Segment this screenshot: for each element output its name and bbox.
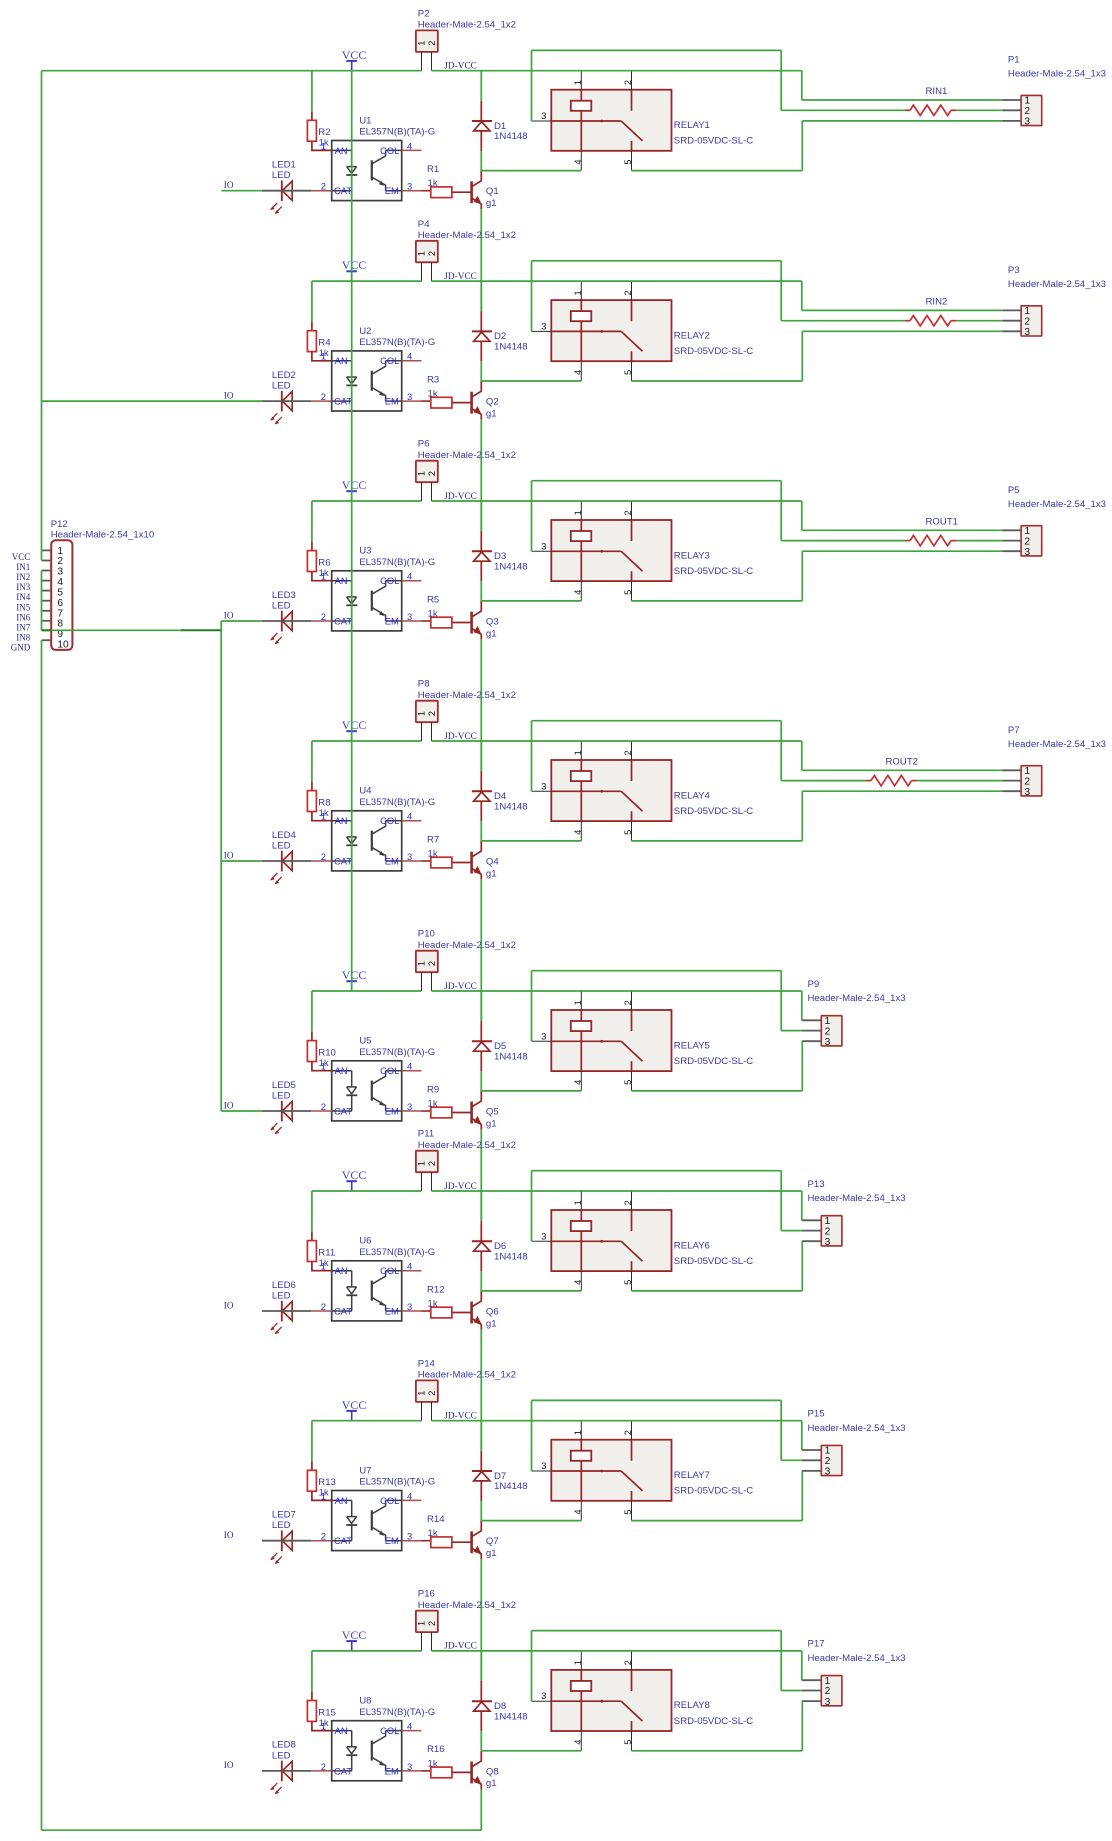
wire diode to collector junction <box>480 821 482 841</box>
connector P3 (Header-Male-2.54_1x3) <box>1008 265 1106 338</box>
wire JD-VCC down to P17 pin1 <box>801 1651 803 1680</box>
svg-text:IO: IO <box>224 1530 234 1540</box>
wire relay top feed <box>532 720 782 722</box>
pin 4 wire of RELAY3 <box>580 581 582 601</box>
svg-text:2: 2 <box>427 961 437 966</box>
pin 2 wire of RELAY6 <box>631 1191 633 1210</box>
transistor Q3 <box>472 601 499 640</box>
wire diode top segment <box>480 71 482 101</box>
wire emitter chain down <box>480 640 482 772</box>
svg-text:3: 3 <box>57 567 63 578</box>
svg-text:2: 2 <box>321 1301 326 1312</box>
wire VCC to pin1 of P6 <box>312 500 422 502</box>
wire resistor to pin2 of P7 <box>917 780 1002 782</box>
svg-text:AN: AN <box>335 355 348 366</box>
svg-text:4: 4 <box>57 577 63 588</box>
resistor R14 1k <box>422 1514 471 1548</box>
svg-text:R16: R16 <box>427 1744 445 1755</box>
svg-text:1N4148: 1N4148 <box>494 802 528 813</box>
svg-text:LED4: LED4 <box>272 830 297 841</box>
transistor Q8 <box>472 1751 499 1790</box>
relay RELAY4 SRD-05VDC-SL-C <box>541 750 753 835</box>
wire JD-VCC down to P7 pin1 <box>801 741 803 770</box>
VCC power symbol <box>342 478 367 501</box>
transistor Q5 <box>472 1091 499 1130</box>
pin 1 wire of P5 <box>1002 529 1021 531</box>
wire down to P9 pin2 row <box>780 971 782 1031</box>
optocoupler U2 EL357N(B)(TA)-G <box>311 326 435 411</box>
svg-text:3: 3 <box>541 321 546 332</box>
wire VCC inter-channel rail <box>351 71 353 991</box>
svg-text:LED: LED <box>272 1291 291 1302</box>
svg-text:COL: COL <box>380 355 399 366</box>
svg-text:R4: R4 <box>318 338 331 349</box>
svg-text:1: 1 <box>321 1061 326 1072</box>
wire IN8 overlapped segment <box>181 629 221 631</box>
svg-text:1N4148: 1N4148 <box>494 1052 528 1063</box>
wire down to relay pin3 row <box>531 261 533 332</box>
pin 1 wire of P8 <box>421 722 423 741</box>
wire JD-VCC down to P15 pin1 <box>801 1421 803 1450</box>
wire diode top segment <box>480 741 482 771</box>
VCC power symbol <box>342 968 367 991</box>
pin 1 wire of RELAY2 <box>580 281 582 300</box>
svg-text:2: 2 <box>427 1621 437 1626</box>
pin 3 wire of RELAY4 <box>532 790 552 792</box>
svg-text:RELAY8: RELAY8 <box>674 1700 710 1711</box>
pin 1 wire of P11 <box>421 1172 423 1191</box>
svg-text:EM: EM <box>385 615 399 626</box>
wire diode top segment <box>480 501 482 531</box>
wire LED lead <box>262 860 311 862</box>
svg-text:1N4148: 1N4148 <box>494 342 528 353</box>
diode D1 1N4148 <box>472 101 528 151</box>
svg-text:LED: LED <box>272 170 291 181</box>
diode D5 1N4148 <box>472 1021 528 1071</box>
svg-text:VCC: VCC <box>342 258 367 272</box>
pin 1 wire of P12 <box>42 549 52 551</box>
svg-text:3: 3 <box>541 111 546 122</box>
resistor R15 1k <box>307 1692 336 1731</box>
pin 3 wire of P12 <box>42 570 52 572</box>
svg-text:R7: R7 <box>427 834 439 845</box>
pin 7 wire of P12 <box>42 610 52 612</box>
pin 1 wire of P13 <box>802 1219 822 1221</box>
wire emitter chain down <box>480 1130 482 1222</box>
svg-text:IO: IO <box>224 390 234 400</box>
relay RELAY2 SRD-05VDC-SL-C <box>541 290 753 375</box>
svg-text:SRD-05VDC-SL-C: SRD-05VDC-SL-C <box>674 1716 754 1727</box>
svg-text:1N4148: 1N4148 <box>494 1252 528 1263</box>
svg-text:AN: AN <box>335 1065 348 1076</box>
resistor R12 1k <box>422 1284 471 1318</box>
svg-text:1: 1 <box>57 546 63 557</box>
wire emitter chain down <box>480 1330 482 1451</box>
svg-text:SRD-05VDC-SL-C: SRD-05VDC-SL-C <box>674 136 754 147</box>
svg-text:1k: 1k <box>428 1528 438 1539</box>
svg-text:IN1: IN1 <box>16 562 30 572</box>
pin 1 wire of RELAY1 <box>580 71 582 90</box>
pin 2 wire of RELAY3 <box>631 501 633 520</box>
svg-text:R1: R1 <box>427 164 439 175</box>
pin 4 wire of RELAY5 <box>580 1071 582 1091</box>
svg-text:LED: LED <box>272 841 291 852</box>
svg-text:EM: EM <box>385 185 399 196</box>
wire up to P13 pin3 row <box>801 1241 803 1291</box>
wire LED lead <box>262 1770 311 1772</box>
wire relay NO rail to P13 pin3 <box>632 1290 803 1292</box>
wire LED lead <box>262 400 311 402</box>
pin 5 wire of RELAY3 <box>631 581 633 601</box>
pin 3 wire of RELAY2 <box>532 330 552 332</box>
VCC power symbol <box>342 48 367 71</box>
wire relay NO rail to P7 pin3 <box>632 840 803 842</box>
svg-text:g1: g1 <box>486 628 497 639</box>
svg-text:CAT: CAT <box>334 1105 352 1116</box>
resistor R11 1k <box>307 1232 335 1271</box>
wire IO input <box>221 190 262 192</box>
wire relay NO rail to P3 pin3 <box>632 380 803 382</box>
svg-text:Header-Male-2.54_1x3: Header-Male-2.54_1x3 <box>808 1193 906 1204</box>
wire JD-VCC from pin2 of P6 <box>432 500 802 502</box>
svg-text:U4: U4 <box>359 786 372 797</box>
wire JD-VCC from pin2 of P11 <box>432 1190 802 1192</box>
pin 3 wire of P1 <box>1002 120 1021 122</box>
pin 4 wire of RELAY2 <box>580 361 582 381</box>
wire IO input from input bus <box>221 1110 262 1112</box>
svg-text:EM: EM <box>385 396 399 407</box>
wire VCC to resistor R11 <box>311 1191 313 1232</box>
diode D2 1N4148 <box>472 311 528 361</box>
resistor R3 1k <box>422 374 471 408</box>
diode D4 1N4148 <box>472 771 528 821</box>
svg-text:Header-Male-2.54_1x2: Header-Male-2.54_1x2 <box>418 450 516 461</box>
svg-text:3: 3 <box>407 1301 412 1312</box>
svg-text:LED5: LED5 <box>272 1080 296 1091</box>
svg-text:P5: P5 <box>1008 485 1020 496</box>
svg-text:1: 1 <box>417 961 427 966</box>
svg-text:3: 3 <box>1024 117 1030 128</box>
wire relay common rail left <box>481 840 581 842</box>
svg-text:U5: U5 <box>359 1036 371 1047</box>
resistor R16 1k <box>422 1744 471 1778</box>
transistor Q7 <box>472 1521 499 1560</box>
svg-text:7: 7 <box>57 608 63 619</box>
svg-text:P12: P12 <box>51 519 68 530</box>
wire VCC to resistor R15 <box>311 1651 313 1692</box>
transistor Q2 <box>472 381 499 420</box>
svg-text:IO: IO <box>224 850 234 860</box>
svg-text:Header-Male-2.54_1x3: Header-Male-2.54_1x3 <box>1008 279 1106 290</box>
svg-text:1: 1 <box>321 811 326 822</box>
svg-text:1: 1 <box>321 571 326 582</box>
svg-text:IO: IO <box>224 1300 234 1310</box>
svg-text:U1: U1 <box>359 115 371 126</box>
svg-text:3: 3 <box>407 181 412 192</box>
wire VCC to pin1 of P11 <box>312 1190 422 1192</box>
pin 1 wire of RELAY3 <box>580 501 582 520</box>
svg-text:GND: GND <box>11 643 31 653</box>
wire to pin3 of P7 <box>802 790 1002 792</box>
svg-text:Header-Male-2.54_1x3: Header-Male-2.54_1x3 <box>808 993 906 1004</box>
svg-text:COL: COL <box>380 1065 399 1076</box>
svg-text:P15: P15 <box>808 1409 825 1420</box>
wire down to P1 pin2 row <box>780 50 782 110</box>
pin 1 wire of P6 <box>421 482 423 501</box>
VCC power symbol <box>342 258 367 281</box>
wire diode top segment <box>480 991 482 1021</box>
svg-text:LED: LED <box>272 381 291 392</box>
svg-text:U3: U3 <box>359 546 371 557</box>
wire relay NO rail to P1 pin3 <box>632 170 803 172</box>
wire emitter chain down <box>480 880 482 1022</box>
pin 2 wire of P7 <box>1002 780 1021 782</box>
wire diode to collector junction <box>480 361 482 381</box>
wire relay NO rail to P15 pin3 <box>632 1520 803 1522</box>
svg-text:2: 2 <box>427 1161 437 1166</box>
resistor R6 1k <box>307 542 331 581</box>
diode D3 1N4148 <box>472 531 528 581</box>
wire VCC to resistor R4 <box>311 281 313 322</box>
svg-text:CAT: CAT <box>334 1765 352 1776</box>
svg-text:P6: P6 <box>418 439 430 450</box>
svg-text:COL: COL <box>380 575 399 586</box>
wire VCC to pin1 of P16 <box>312 1650 422 1652</box>
wire diode to collector junction <box>480 1731 482 1751</box>
svg-text:1: 1 <box>417 251 427 256</box>
svg-text:IO: IO <box>224 610 234 620</box>
diode D7 1N4148 <box>472 1451 528 1501</box>
svg-text:g1: g1 <box>486 1778 497 1789</box>
svg-text:2: 2 <box>825 1026 831 1037</box>
svg-text:P1: P1 <box>1008 55 1020 66</box>
resistor R13 1k <box>307 1461 336 1500</box>
svg-text:Header-Male-2.54_1x2: Header-Male-2.54_1x2 <box>418 1140 516 1151</box>
VCC power symbol <box>342 1398 367 1421</box>
wire relay common rail left <box>481 380 581 382</box>
wire JD-VCC down to P1 pin1 <box>801 71 803 100</box>
pin 1 wire of RELAY5 <box>580 991 582 1010</box>
relay RELAY3 SRD-05VDC-SL-C <box>541 510 753 595</box>
wire relay NO rail to P9 pin3 <box>632 1090 803 1092</box>
wire relay common rail left <box>481 1750 581 1752</box>
svg-text:VCC: VCC <box>342 478 367 492</box>
svg-text:4: 4 <box>407 140 412 151</box>
wire LED lead <box>262 190 311 192</box>
svg-text:1: 1 <box>417 1391 427 1396</box>
pin 2 wire of P4 <box>431 262 433 281</box>
pin 2 wire of P12 <box>42 560 52 562</box>
svg-text:P14: P14 <box>418 1358 436 1369</box>
svg-text:g1: g1 <box>486 868 497 879</box>
svg-text:RELAY5: RELAY5 <box>674 1040 710 1051</box>
svg-text:AN: AN <box>335 815 348 826</box>
resistor ROUT1 <box>905 517 958 546</box>
wire VCC to pin1 of P4 <box>312 280 422 282</box>
connector P14 (Header-Male-2.54_1x2) <box>416 1358 516 1402</box>
connector P8 (Header-Male-2.54_1x2) <box>416 679 516 723</box>
svg-text:1k: 1k <box>428 849 438 860</box>
svg-text:Header-Male-2.54_1x2: Header-Male-2.54_1x2 <box>418 1370 516 1381</box>
svg-text:U2: U2 <box>359 326 371 337</box>
wire JD-VCC down to P9 pin1 <box>801 991 803 1020</box>
svg-text:Q1: Q1 <box>486 186 499 197</box>
svg-text:R5: R5 <box>427 594 439 605</box>
svg-text:CAT: CAT <box>334 396 352 407</box>
pin 2 wire of RELAY2 <box>631 281 633 300</box>
svg-text:4: 4 <box>407 1721 412 1732</box>
resistor R5 1k <box>422 594 471 628</box>
transistor Q4 <box>472 841 500 880</box>
svg-text:VCC: VCC <box>12 552 31 562</box>
svg-text:R13: R13 <box>318 1477 336 1488</box>
pin 2 wire of RELAY5 <box>631 991 633 1010</box>
pin 2 wire of RELAY8 <box>631 1651 633 1670</box>
pin 1 wire of RELAY4 <box>580 741 582 760</box>
svg-text:1k: 1k <box>428 1758 438 1769</box>
svg-text:EM: EM <box>385 1535 399 1546</box>
svg-text:2: 2 <box>427 471 437 476</box>
svg-text:EL357N(B)(TA)-G: EL357N(B)(TA)-G <box>359 1707 435 1718</box>
svg-text:R6: R6 <box>318 558 330 569</box>
svg-text:P11: P11 <box>418 1129 434 1140</box>
pin 1 wire of RELAY8 <box>580 1651 582 1670</box>
svg-text:D3: D3 <box>494 551 506 562</box>
svg-text:4: 4 <box>407 811 412 822</box>
svg-text:1k: 1k <box>428 609 438 620</box>
svg-text:EM: EM <box>385 855 399 866</box>
svg-text:SRD-05VDC-SL-C: SRD-05VDC-SL-C <box>674 1256 754 1267</box>
svg-text:3: 3 <box>541 1231 546 1242</box>
svg-text:4: 4 <box>407 1261 412 1272</box>
wire emitter to ground rail <box>480 1790 482 1831</box>
connector P1 (Header-Male-2.54_1x3) <box>1008 55 1106 128</box>
svg-text:2: 2 <box>321 611 326 622</box>
svg-text:2: 2 <box>1024 316 1030 327</box>
pin 4 wire of RELAY7 <box>580 1501 582 1521</box>
svg-text:2: 2 <box>825 1226 831 1237</box>
svg-text:SRD-05VDC-SL-C: SRD-05VDC-SL-C <box>674 806 754 817</box>
wire diode top segment <box>480 281 482 311</box>
wire relay common rail left <box>481 1290 581 1292</box>
wire relay top feed <box>532 480 782 482</box>
wire IN bus vertical at P12 <box>41 571 43 631</box>
connector P6 (Header-Male-2.54_1x2) <box>416 439 516 483</box>
wire diode to collector junction <box>480 581 482 601</box>
svg-text:EM: EM <box>385 1105 399 1116</box>
svg-text:Q6: Q6 <box>486 1306 499 1317</box>
optocoupler U1 EL357N(B)(TA)-G <box>311 115 435 200</box>
svg-text:Header-Male-2.54_1x3: Header-Male-2.54_1x3 <box>1008 69 1106 80</box>
pin 3 wire of P7 <box>1002 790 1021 792</box>
svg-text:Header-Male-2.54_1x2: Header-Male-2.54_1x2 <box>418 940 516 951</box>
wire diode to collector junction <box>480 1501 482 1521</box>
svg-text:RELAY7: RELAY7 <box>674 1470 710 1481</box>
svg-text:LED: LED <box>272 1750 291 1761</box>
wire JD-VCC down to P13 pin1 <box>801 1191 803 1220</box>
pin 2 wire of P10 <box>431 972 433 991</box>
wire P15 pin2 row <box>781 1459 802 1461</box>
wire down to P7 pin2 row <box>780 721 782 781</box>
connector P13 (Header-Male-2.54_1x3) <box>808 1179 906 1248</box>
wire VCC to pin1 of P2 <box>42 70 422 72</box>
pin 1 wire of P16 <box>421 1632 423 1651</box>
pin 5 wire of RELAY8 <box>631 1731 633 1751</box>
wire resistor to pin2 of P1 <box>956 109 1002 111</box>
led LED3 <box>270 590 296 644</box>
wire VCC to resistor R6 <box>311 501 313 542</box>
svg-text:2: 2 <box>321 181 326 192</box>
pin 2 wire of P2 <box>431 52 433 71</box>
svg-text:LED7: LED7 <box>272 1510 296 1521</box>
resistor RIN1 <box>905 86 956 115</box>
optocoupler U6 EL357N(B)(TA)-G <box>311 1236 435 1321</box>
svg-text:SRD-05VDC-SL-C: SRD-05VDC-SL-C <box>674 566 754 577</box>
svg-text:LED: LED <box>272 601 291 612</box>
wire to pin1 of P1 <box>802 99 1002 101</box>
pin 2 wire of P14 <box>431 1402 433 1421</box>
wire down to P13 pin2 row <box>780 1171 782 1231</box>
svg-text:1k: 1k <box>428 1099 438 1110</box>
wire relay top feed <box>532 1630 782 1632</box>
resistor R1 1k <box>422 164 471 198</box>
svg-text:2: 2 <box>427 711 437 716</box>
svg-text:CAT: CAT <box>334 1305 352 1316</box>
wire resistor to pin2 of P3 <box>956 320 1002 322</box>
wire VCC to resistor R2 <box>311 71 313 112</box>
resistor R10 1k <box>307 1032 336 1071</box>
VCC power symbol <box>342 718 367 741</box>
svg-text:COL: COL <box>380 1725 399 1736</box>
svg-text:1k: 1k <box>428 1299 438 1310</box>
svg-text:2: 2 <box>321 1101 326 1112</box>
svg-text:EM: EM <box>385 1765 399 1776</box>
connector P9 (Header-Male-2.54_1x3) <box>808 979 906 1048</box>
wire to pin3 of P1 <box>802 120 1002 122</box>
wire VCC to pin1 of P14 <box>312 1420 422 1422</box>
wire GND left rail <box>41 640 43 1830</box>
svg-text:LED: LED <box>272 1520 291 1531</box>
wire down to relay pin3 row <box>531 1171 533 1242</box>
svg-text:Header-Male-2.54_1x2: Header-Male-2.54_1x2 <box>418 20 516 31</box>
svg-text:3: 3 <box>407 851 412 862</box>
pin 2 wire of RELAY4 <box>631 741 633 760</box>
svg-text:R2: R2 <box>318 127 330 138</box>
connector P17 (Header-Male-2.54_1x3) <box>808 1639 906 1708</box>
pin 6 wire of P12 <box>42 600 52 602</box>
svg-text:R15: R15 <box>318 1707 336 1718</box>
pin 3 wire of P3 <box>1002 330 1021 332</box>
svg-text:AN: AN <box>335 145 348 156</box>
svg-text:U8: U8 <box>359 1696 371 1707</box>
wire down to relay pin3 row <box>531 721 533 792</box>
pin 4 wire of RELAY1 <box>580 151 582 171</box>
pin 1 wire of P1 <box>1002 99 1021 101</box>
svg-text:R8: R8 <box>318 798 330 809</box>
pin 5 wire of RELAY5 <box>631 1071 633 1091</box>
svg-text:Header-Male-2.54_1x10: Header-Male-2.54_1x10 <box>51 530 154 541</box>
optocoupler U3 EL357N(B)(TA)-G <box>311 546 435 631</box>
svg-text:2: 2 <box>1024 536 1030 547</box>
svg-text:EM: EM <box>385 1305 399 1316</box>
svg-text:AN: AN <box>335 575 348 586</box>
pin 2 wire of P15 <box>802 1459 822 1461</box>
svg-text:CAT: CAT <box>334 615 352 626</box>
svg-text:1N4148: 1N4148 <box>494 131 528 142</box>
wire relay top feed <box>532 970 782 972</box>
svg-text:SRD-05VDC-SL-C: SRD-05VDC-SL-C <box>674 346 754 357</box>
relay RELAY6 SRD-05VDC-SL-C <box>541 1200 753 1285</box>
